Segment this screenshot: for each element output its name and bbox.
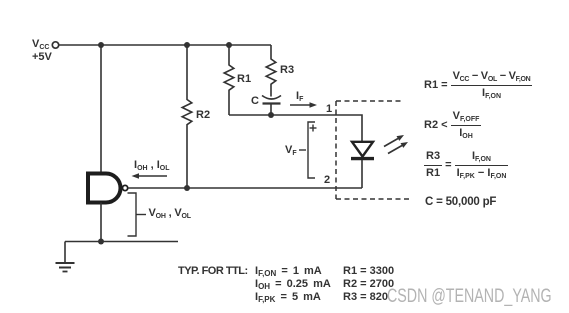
- formula R3/R1: [424, 151, 508, 179]
- node: junction ground rail: [98, 239, 104, 245]
- plus sign: [310, 127, 317, 129]
- label R2: [196, 110, 210, 121]
- resistor R3: [266, 45, 276, 97]
- node: junction gate branch: [98, 42, 104, 48]
- label R3: [280, 65, 294, 76]
- bracket VF: [308, 122, 315, 178]
- wire: IF rail to pin 1: [229, 115, 362, 142]
- resistor R2: [182, 45, 192, 188]
- label pin 2: [324, 175, 330, 186]
- label C: [251, 96, 259, 107]
- op-amp gate U1 (NAND driver): [88, 174, 121, 203]
- gate output bubble: [123, 185, 128, 190]
- arrow IOH IOL: [138, 175, 167, 177]
- label pin 1: [326, 104, 332, 115]
- bracket VOH VOL: [128, 193, 137, 236]
- label IF: [296, 91, 303, 102]
- node: junction R1 branch: [226, 42, 232, 48]
- ground: [64, 242, 66, 263]
- label VF: [285, 145, 297, 156]
- label IOH IOL: [134, 160, 170, 171]
- dashed package box: [335, 101, 337, 199]
- node: junction R2 to output: [184, 185, 190, 191]
- LED light arrow 2: [388, 146, 402, 154]
- node: junction C/R1 rail: [268, 112, 274, 118]
- resistor R1: [224, 45, 234, 115]
- formula R1: [424, 71, 532, 99]
- formula R2: [424, 111, 481, 139]
- table TYP FOR TTL: [178, 266, 248, 277]
- wire: capacitor to IF rail: [270, 105, 272, 116]
- arrow IF: [290, 104, 311, 106]
- Vcc terminal: [52, 42, 58, 48]
- watermark: [387, 286, 552, 308]
- LED light arrow 1: [384, 139, 398, 147]
- label +5V: [32, 52, 52, 63]
- label VOH VOL: [149, 208, 191, 219]
- wire: gate output to pin 2: [128, 187, 362, 189]
- label Vcc: [32, 39, 49, 50]
- label R1: [237, 74, 251, 85]
- formula C: [425, 197, 496, 209]
- wire: ground rail: [65, 241, 178, 243]
- wire: top Vcc rail: [59, 44, 271, 46]
- LED D1: [352, 142, 373, 157]
- wire: gate top input drop: [100, 45, 102, 173]
- capacitor C straight plate: [263, 102, 281, 104]
- node: junction R2 branch: [184, 42, 190, 48]
- wire: gate bottom drop: [100, 203, 102, 242]
- capacitor C curved plate: [262, 96, 281, 100]
